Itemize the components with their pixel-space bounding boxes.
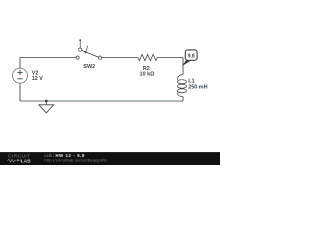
ground bbox=[39, 100, 54, 113]
resistor R2 bbox=[138, 54, 157, 60]
wire top-left horizontal bbox=[20, 57, 76, 59]
wire right vertical upper bbox=[182, 58, 184, 75]
svg-text:9.8: 9.8 bbox=[188, 53, 195, 59]
svg-text:CIRCUIT: CIRCUIT bbox=[8, 153, 31, 158]
svg-text:SW2: SW2 bbox=[83, 64, 95, 70]
svg-text:L1: L1 bbox=[188, 79, 194, 85]
probe annotation 9.8 bbox=[182, 50, 197, 66]
wire right vertical lower bbox=[182, 97, 184, 101]
CircuitLab watermark bar bbox=[0, 152, 220, 165]
wire switch to resistor bbox=[102, 57, 139, 59]
svg-text:12 V: 12 V bbox=[32, 76, 43, 82]
wire bottom horizontal bbox=[20, 100, 183, 102]
wire left vertical upper bbox=[19, 58, 21, 69]
svg-text:R2: R2 bbox=[143, 66, 150, 72]
svg-text:250 mH: 250 mH bbox=[188, 84, 207, 90]
svg-text:10 kΩ: 10 kΩ bbox=[140, 72, 155, 78]
switch SW2 bbox=[76, 39, 102, 59]
svg-text:http://circuitlab.com/c/6eqcpm: http://circuitlab.com/c/6eqcpm5/ bbox=[44, 157, 107, 162]
wire left vertical lower bbox=[19, 83, 21, 101]
wire top-right horizontal bbox=[157, 57, 183, 59]
svg-text:LAB: LAB bbox=[21, 158, 31, 164]
inductor L1 bbox=[177, 75, 186, 97]
voltage source V2 bbox=[13, 68, 28, 83]
